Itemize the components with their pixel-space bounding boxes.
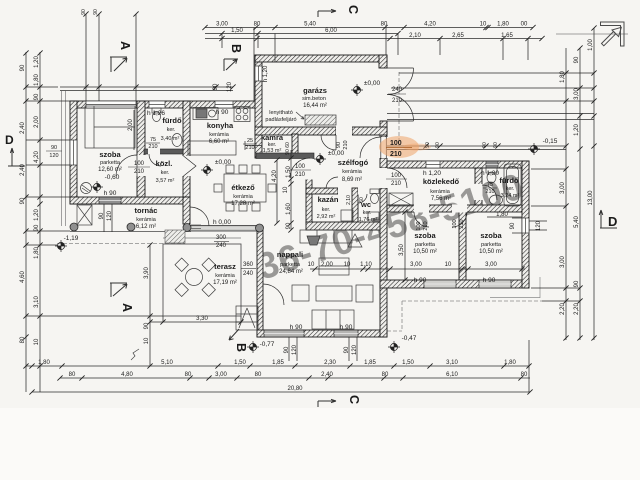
door wc arc xyxy=(358,194,367,203)
terasz table xyxy=(186,269,203,286)
svg-text:h 1,20: h 1,20 xyxy=(481,170,499,177)
svg-text:90: 90 xyxy=(213,83,219,90)
door opening kozlekedo-szoba1 xyxy=(414,205,429,213)
svg-text:szélfogó: szélfogó xyxy=(338,158,369,167)
window stub texts xyxy=(49,145,58,159)
svg-text:lenyitható: lenyitható xyxy=(269,110,293,116)
svg-text:étkező: étkező xyxy=(231,183,255,192)
svg-text:közlekedő: közlekedő xyxy=(423,177,460,186)
svg-text:3,10: 3,10 xyxy=(446,360,458,366)
right dim col 2 xyxy=(579,48,581,340)
svg-text:16,44 m²: 16,44 m² xyxy=(303,103,327,109)
wall garage west xyxy=(255,55,262,158)
svg-text:1,80: 1,80 xyxy=(34,74,40,86)
window garage west xyxy=(255,66,262,81)
svg-text:1,85: 1,85 xyxy=(272,360,284,366)
orange highlight entry door xyxy=(379,136,431,158)
svg-text:100: 100 xyxy=(391,173,402,179)
svg-text:5,40: 5,40 xyxy=(574,216,580,228)
svg-text:210: 210 xyxy=(392,98,403,104)
svg-text:h 1,26: h 1,26 xyxy=(147,110,165,117)
svg-text:90: 90 xyxy=(574,56,580,63)
svg-text:3,10: 3,10 xyxy=(34,296,40,308)
wall etkezo-szelfogo xyxy=(306,179,312,223)
sofa nappali top xyxy=(300,230,352,243)
svg-text:10,50 m²: 10,50 m² xyxy=(413,249,437,255)
svg-text:-0,77: -0,77 xyxy=(260,341,275,348)
svg-text:3,00: 3,00 xyxy=(560,182,566,194)
svg-text:80: 80 xyxy=(381,22,388,28)
svg-text:90: 90 xyxy=(81,9,87,15)
svg-text:240: 240 xyxy=(243,271,254,277)
svg-text:kerámia: kerámia xyxy=(430,189,451,195)
svg-text:A: A xyxy=(118,41,132,50)
door etkezo-szelfogo arc xyxy=(290,158,310,178)
svg-text:1,76 m²: 1,76 m² xyxy=(359,217,378,223)
coffee table nappali xyxy=(316,286,352,301)
svg-text:parketta: parketta xyxy=(100,160,121,166)
windows xyxy=(70,66,529,233)
bathtub furdo right xyxy=(504,164,521,206)
svg-text:80: 80 xyxy=(382,372,389,378)
svg-text:fürdő: fürdő xyxy=(499,176,519,185)
svg-text:1,20: 1,20 xyxy=(34,56,40,68)
svg-text:h 1,20: h 1,20 xyxy=(423,170,441,177)
wall szoba east xyxy=(137,101,145,197)
post tornac east xyxy=(183,224,191,232)
svg-text:12,60 m²: 12,60 m² xyxy=(98,167,122,173)
svg-text:D: D xyxy=(5,133,14,147)
svg-text:1,60: 1,60 xyxy=(286,203,292,215)
svg-text:80: 80 xyxy=(255,372,262,378)
toilet wc xyxy=(370,189,379,204)
wall right-wing north xyxy=(387,161,529,168)
wall entry column xyxy=(380,158,387,168)
svg-text:6,10: 6,10 xyxy=(446,372,458,378)
post tornac middle xyxy=(127,223,135,231)
window nappali south 2 xyxy=(334,330,358,337)
svg-text:1,80: 1,80 xyxy=(504,360,516,366)
interior dim texts xyxy=(46,9,542,355)
svg-text:C: C xyxy=(346,5,360,14)
window furdo north xyxy=(149,101,165,108)
svg-text:2,00: 2,00 xyxy=(128,119,134,131)
window stub dims nappali xyxy=(289,337,357,361)
svg-text:210: 210 xyxy=(459,219,465,228)
svg-text:80: 80 xyxy=(521,372,528,378)
door opening furdo left xyxy=(148,149,160,155)
post tornac west xyxy=(70,223,78,231)
svg-text:h 1,20: h 1,20 xyxy=(263,65,269,82)
dimension texts right rotated xyxy=(560,39,594,315)
svg-text:h 90: h 90 xyxy=(104,190,117,197)
window rightwing north 2 xyxy=(486,161,498,168)
svg-text:100: 100 xyxy=(452,219,458,228)
svg-text:210: 210 xyxy=(148,144,157,150)
wall garage east lower stub xyxy=(380,121,387,137)
svg-text:kerámia: kerámia xyxy=(209,132,230,138)
window nappali south 1 xyxy=(264,330,304,337)
svg-text:90: 90 xyxy=(20,197,26,204)
door opening etkezo-szelfogo xyxy=(306,159,313,180)
door szelfogo-kozlekedo arc xyxy=(387,168,407,188)
console nappali xyxy=(319,258,349,275)
svg-text:sim.beton: sim.beton xyxy=(302,96,326,102)
door kozlekedo-szoba1 arc xyxy=(414,212,429,227)
door label szelfogo-kozlekedo 100/210 xyxy=(386,173,407,187)
top extension stubs xyxy=(222,28,528,102)
svg-text:80: 80 xyxy=(254,22,261,28)
svg-text:kerámia: kerámia xyxy=(136,217,157,223)
svg-text:1,80: 1,80 xyxy=(496,212,508,218)
svg-text:2,65: 2,65 xyxy=(452,33,464,39)
top dim line 1 xyxy=(205,27,533,29)
kitchen sink unit xyxy=(193,108,218,120)
door nappali-terasz arc xyxy=(263,284,284,305)
wall furdo west xyxy=(475,168,482,205)
svg-text:4,60: 4,60 xyxy=(20,271,26,283)
door garage-szelfogo arc xyxy=(321,135,336,150)
tornac bench brace xyxy=(77,205,92,225)
svg-text:-0,47: -0,47 xyxy=(402,335,417,342)
svg-text:17,28 m²: 17,28 m² xyxy=(231,201,255,207)
boiler kazan xyxy=(341,210,353,221)
svg-text:2,00: 2,00 xyxy=(34,116,40,128)
door opening furdo right xyxy=(475,184,483,200)
wall right-wing east xyxy=(522,161,529,288)
svg-text:ker.: ker. xyxy=(506,186,515,192)
svg-text:konyha: konyha xyxy=(207,121,234,130)
wall garage north xyxy=(255,55,387,62)
sink furdo right xyxy=(490,195,503,205)
door label garage gate 240/210 xyxy=(388,87,406,104)
svg-text:90: 90 xyxy=(510,222,516,229)
eave outline left wing xyxy=(57,91,258,246)
svg-text:90: 90 xyxy=(285,149,291,155)
svg-text:2,20: 2,20 xyxy=(560,303,566,315)
svg-text:3,57 m²: 3,57 m² xyxy=(156,178,175,184)
kozlekedo inner dim xyxy=(487,217,529,392)
svg-text:10: 10 xyxy=(283,186,289,193)
door furdo-right arc xyxy=(482,185,497,200)
svg-text:-0,15: -0,15 xyxy=(543,138,558,145)
svg-text:6,60 m²: 6,60 m² xyxy=(209,139,229,145)
svg-text:24,84 m²: 24,84 m² xyxy=(279,269,303,275)
svg-text:C: C xyxy=(347,395,361,404)
svg-text:ker.: ker. xyxy=(161,170,170,176)
svg-text:210: 210 xyxy=(343,140,349,149)
svg-text:garázs: garázs xyxy=(303,86,327,95)
svg-text:parketta: parketta xyxy=(415,242,436,248)
svg-text:1,00: 1,00 xyxy=(588,39,594,51)
svg-text:1,50: 1,50 xyxy=(234,360,246,366)
svg-text:3,90: 3,90 xyxy=(144,267,150,279)
armchair nappali right xyxy=(356,285,373,302)
door label furdo right 75/210 xyxy=(483,182,497,195)
wall left-wing west xyxy=(70,101,77,204)
svg-text:90: 90 xyxy=(34,93,40,100)
svg-text:10: 10 xyxy=(144,337,150,344)
north arrow xyxy=(556,22,628,46)
svg-text:1,53 m²: 1,53 m² xyxy=(263,148,282,154)
wall nappali east / right wing west xyxy=(380,188,387,337)
svg-text:120: 120 xyxy=(536,220,542,231)
post etkezo window east xyxy=(256,224,264,232)
door label kamra 25/210 xyxy=(243,138,257,151)
doors xyxy=(116,68,497,305)
svg-text:3,24 m²: 3,24 m² xyxy=(501,193,520,199)
svg-text:1,80: 1,80 xyxy=(560,71,566,83)
section marker C top xyxy=(318,9,336,17)
kitchen counter xyxy=(188,141,236,155)
terasz step lines xyxy=(191,225,201,229)
svg-text:2,20: 2,20 xyxy=(574,303,580,315)
svg-text:D: D xyxy=(608,214,617,229)
svg-text:60: 60 xyxy=(285,142,291,148)
svg-text:10: 10 xyxy=(34,338,40,345)
wall garage south east part xyxy=(352,127,387,135)
svg-text:3,00: 3,00 xyxy=(574,88,580,100)
etkezo table xyxy=(224,174,266,202)
door konyha-kamra leaf xyxy=(245,141,262,150)
svg-text:3,50: 3,50 xyxy=(399,244,405,256)
extension lines right side xyxy=(387,73,594,301)
svg-text:20,80: 20,80 xyxy=(287,386,303,392)
svg-text:210: 210 xyxy=(423,221,429,230)
bottom dim line 1 xyxy=(32,365,529,367)
svg-text:10: 10 xyxy=(445,262,452,268)
attic hatch garage xyxy=(296,112,336,125)
svg-text:±0,00: ±0,00 xyxy=(328,150,345,157)
svg-text:1,85: 1,85 xyxy=(364,360,376,366)
door size labels xyxy=(128,87,497,277)
door opening kazan xyxy=(338,188,347,195)
window stub dims tornac xyxy=(104,204,112,232)
svg-text:2,00: 2,00 xyxy=(321,262,333,268)
svg-text:4,20: 4,20 xyxy=(34,151,40,163)
svg-text:±0,00: ±0,00 xyxy=(215,159,232,166)
svg-text:90: 90 xyxy=(51,145,57,151)
svg-text:6,00: 6,00 xyxy=(325,28,337,34)
svg-text:90: 90 xyxy=(99,212,105,219)
svg-text:szoba: szoba xyxy=(414,231,436,240)
svg-text:fürdő: fürdő xyxy=(162,116,182,125)
svg-text:210: 210 xyxy=(245,145,254,151)
section marker C bottom xyxy=(318,399,336,407)
svg-text:360: 360 xyxy=(243,262,254,268)
door garage gate arcs xyxy=(387,68,414,121)
svg-text:-1,19: -1,19 xyxy=(64,235,79,242)
door kozlekedo-szoba2 arc xyxy=(452,212,467,227)
terasz outline xyxy=(163,244,241,316)
svg-text:1,10: 1,10 xyxy=(360,262,372,268)
window szoba south dark xyxy=(99,197,121,204)
window rightwing north 1 xyxy=(426,161,440,168)
svg-text:4,20: 4,20 xyxy=(424,22,436,28)
window etkezo south big xyxy=(189,226,257,232)
toilet furdo left xyxy=(152,108,161,122)
svg-text:1,50: 1,50 xyxy=(402,360,414,366)
dimension texts top xyxy=(216,22,528,40)
window label 300/240 xyxy=(214,235,229,249)
wall nappali south xyxy=(257,330,387,337)
wall garage south west part xyxy=(255,127,336,135)
door label szoba2 door rotated xyxy=(452,219,465,228)
svg-text:-0,60: -0,60 xyxy=(105,174,120,181)
door kozl-etkezo leaf xyxy=(184,156,197,176)
window label 360/240 xyxy=(241,262,256,277)
svg-text:h 90: h 90 xyxy=(340,324,353,331)
wall szoba divider right wing xyxy=(459,212,466,280)
svg-text:90: 90 xyxy=(144,322,150,329)
sofa nappali bottom xyxy=(312,310,354,329)
svg-text:17,19 m²: 17,19 m² xyxy=(213,280,237,286)
svg-text:1,80: 1,80 xyxy=(34,247,40,259)
svg-text:szoba: szoba xyxy=(99,150,121,159)
svg-text:6,12 m²: 6,12 m² xyxy=(136,224,156,230)
svg-text:210: 210 xyxy=(295,172,306,178)
dimension lines xyxy=(26,14,594,392)
door opening szelfogo-kozlekedo xyxy=(380,168,388,188)
svg-text:120: 120 xyxy=(292,344,298,355)
svg-text:padlásfeljáró: padlásfeljáró xyxy=(265,117,296,123)
svg-text:3,00: 3,00 xyxy=(216,22,228,28)
svg-text:kamra: kamra xyxy=(261,133,284,142)
svg-text:300: 300 xyxy=(216,235,227,241)
window konyha north xyxy=(215,101,233,108)
door opening kozlekedo-szoba2 xyxy=(452,205,467,213)
svg-text:1,50: 1,50 xyxy=(231,28,243,34)
door opening szoba xyxy=(137,155,146,176)
svg-text:90: 90 xyxy=(93,9,99,15)
svg-text:2,40: 2,40 xyxy=(20,164,26,176)
svg-text:210: 210 xyxy=(134,169,145,175)
section marker A top xyxy=(110,57,127,72)
wall nappali north xyxy=(306,222,387,230)
svg-text:h 90: h 90 xyxy=(216,109,229,116)
svg-text:80: 80 xyxy=(20,336,26,343)
wall nappali west xyxy=(257,228,263,337)
door kazan arc xyxy=(326,177,338,189)
left dim col inner xyxy=(39,52,41,392)
svg-text:3,00: 3,00 xyxy=(215,372,227,378)
svg-text:2,40: 2,40 xyxy=(20,122,26,134)
terasz step hatch xyxy=(165,230,185,243)
outside stair nappali sw xyxy=(236,306,258,330)
svg-text:75: 75 xyxy=(487,182,493,188)
svg-text:75: 75 xyxy=(150,137,156,143)
extension lines left side xyxy=(26,87,163,366)
svg-text:8,69 m²: 8,69 m² xyxy=(342,177,362,183)
svg-text:100: 100 xyxy=(390,140,402,147)
svg-text:210: 210 xyxy=(391,181,402,187)
wall left-wing top xyxy=(70,101,256,108)
svg-text:kerámia: kerámia xyxy=(233,194,254,200)
door main entry arc xyxy=(360,137,386,158)
window szoba1 south xyxy=(424,280,456,288)
section marker B bottom xyxy=(229,329,239,340)
right dim col 1 xyxy=(565,48,567,340)
wall tornac east xyxy=(183,197,190,224)
section marker A bottom xyxy=(110,283,127,297)
window rightwing east xyxy=(522,218,529,233)
svg-text:ker.: ker. xyxy=(363,210,372,216)
window stub dims east xyxy=(512,218,547,233)
door label garage-szelfogo 90/210 rotated xyxy=(336,140,349,149)
wall left-wing east xyxy=(183,101,190,197)
top dim line 2 xyxy=(205,33,398,35)
door opening kozl-etkezo xyxy=(183,156,191,176)
svg-text:B: B xyxy=(229,44,243,53)
door label szoba 100/210 xyxy=(128,161,150,175)
svg-text:B: B xyxy=(234,343,248,352)
door opening garage-szelfogo xyxy=(336,127,352,136)
svg-text:240: 240 xyxy=(216,243,227,249)
wall szoba south xyxy=(70,197,186,204)
svg-text:90: 90 xyxy=(284,346,290,353)
svg-text:ker.: ker. xyxy=(167,127,176,133)
svg-text:4,80: 4,80 xyxy=(121,372,133,378)
wall kazan-wc divider xyxy=(352,188,358,223)
svg-text:1,80: 1,80 xyxy=(497,22,509,28)
svg-text:kerámia: kerámia xyxy=(215,273,236,279)
svg-text:90: 90 xyxy=(344,346,350,353)
svg-text:3,40 m²: 3,40 m² xyxy=(161,136,180,142)
svg-text:100: 100 xyxy=(416,221,422,230)
armchair nappali left xyxy=(292,285,309,301)
door opening main entry xyxy=(380,137,388,158)
svg-text:1,20: 1,20 xyxy=(34,209,40,221)
svg-text:A: A xyxy=(120,303,134,312)
svg-text:h 0,00: h 0,00 xyxy=(213,219,231,226)
svg-text:1,20: 1,20 xyxy=(574,124,580,136)
bed szoba xyxy=(85,106,135,148)
svg-text:100: 100 xyxy=(134,161,145,167)
wall kazan north xyxy=(306,188,338,194)
svg-text:kazán: kazán xyxy=(318,195,339,204)
door label szoba1 door rotated xyxy=(416,221,429,230)
svg-text:1,50: 1,50 xyxy=(286,166,292,178)
svg-text:10: 10 xyxy=(344,262,351,268)
basin wc xyxy=(368,212,379,220)
tornac posts xyxy=(70,223,264,232)
svg-text:szoba: szoba xyxy=(480,231,502,240)
bottom dim line 3 overall xyxy=(32,391,530,393)
svg-text:90: 90 xyxy=(435,142,441,148)
svg-text:7,56 m²: 7,56 m² xyxy=(431,196,451,202)
svg-text:h 90: h 90 xyxy=(290,324,303,331)
svg-text:13,00: 13,00 xyxy=(588,190,594,206)
section marker B top xyxy=(224,59,238,71)
plant nappali xyxy=(348,234,362,247)
tornac floor edge xyxy=(70,231,191,233)
furniture xyxy=(81,106,522,330)
terasz dim line xyxy=(150,245,241,366)
svg-text:1,80: 1,80 xyxy=(38,360,50,366)
svg-text:120: 120 xyxy=(49,153,58,159)
window dim lines left wing top xyxy=(60,14,233,101)
svg-text:1,65: 1,65 xyxy=(501,33,513,39)
svg-text:5,10: 5,10 xyxy=(161,360,173,366)
svg-text:120: 120 xyxy=(107,210,113,221)
svg-text:2,40: 2,40 xyxy=(321,372,333,378)
door etkezo-tornac arc xyxy=(190,207,209,226)
svg-text:10: 10 xyxy=(480,22,487,28)
sink furdo left xyxy=(172,134,182,147)
svg-text:10: 10 xyxy=(308,262,315,268)
svg-text:közl.: közl. xyxy=(156,159,173,168)
door furdo-left arc xyxy=(149,154,161,166)
